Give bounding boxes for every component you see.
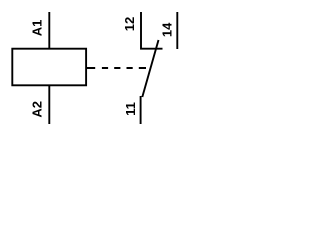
NO contact terminal 14 wire [176,12,178,49]
svg-text:11: 11 [123,102,138,116]
terminal A1 wire [48,12,50,48]
NC contact terminal 12 wire (L-shaped) [141,12,163,49]
common terminal 11 wire [140,96,142,124]
svg-text:14: 14 [160,22,175,37]
moving contact arm [142,40,158,97]
svg-text:12: 12 [122,17,137,31]
svg-text:A2: A2 [30,101,45,118]
svg-text:A1: A1 [29,20,44,37]
terminal A2 wire [48,86,50,124]
mechanical linkage dashed wire [87,67,146,69]
coil K1 rectangle [12,49,86,86]
